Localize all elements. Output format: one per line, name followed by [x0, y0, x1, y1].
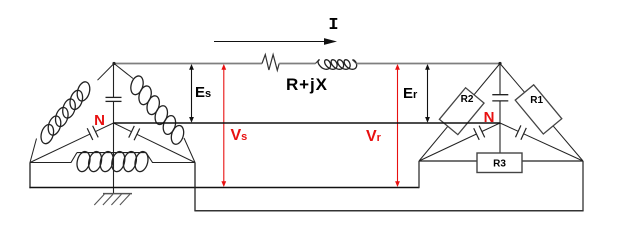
- winding (generator phase, bottom side): [30, 153, 77, 163]
- svg-text:R2: R2: [461, 94, 474, 105]
- arrow Vs (sending line voltage, red): [223, 66, 225, 186]
- svg-text:I: I: [328, 16, 338, 35]
- wire (drop at x=195): [194, 163, 196, 212]
- wire (drop at x=419 from load left vertex): [418, 161, 420, 188]
- node (receiving apex junction): [498, 62, 501, 65]
- capacitor (left bank, to lower-left vertex): [95, 123, 113, 132]
- wire (load delta base): [419, 160, 583, 162]
- svg-text:N: N: [94, 112, 105, 129]
- arrow Er (receiving phase emf): [427, 66, 429, 122]
- svg-text:R3: R3: [493, 159, 506, 170]
- svg-text:R+jX: R+jX: [286, 75, 328, 94]
- svg-text:N: N: [484, 109, 495, 126]
- capacitor (right bank, to lower-right vertex): [500, 123, 518, 131]
- resistor R3: [477, 153, 522, 173]
- current arrow I: [214, 41, 327, 43]
- capacitor (right bank, vertical phase): [499, 64, 501, 95]
- winding (generator phase, right side): [114, 64, 133, 79]
- wire (neutral link N to N at y=123): [114, 122, 501, 124]
- capacitor (right bank, to lower-left vertex): [482, 123, 500, 132]
- ground: [103, 193, 132, 195]
- wire (load delta left side): [419, 64, 500, 162]
- wire (bottom bus at y=211): [194, 210, 583, 212]
- resistor R2: [439, 88, 484, 135]
- wire (top bus, sending apex to series resistor): [114, 63, 262, 65]
- svg-text:R1: R1: [530, 95, 543, 106]
- resistor R1: [515, 85, 562, 134]
- resistor R (series line resistance): [262, 55, 279, 71]
- wire (left neutral to ground): [113, 123, 115, 194]
- arrow Es (sending phase emf): [191, 66, 193, 122]
- capacitor (left bank, to lower-right vertex): [114, 123, 132, 132]
- wire (riser at x=583 to load right vertex): [582, 161, 584, 211]
- wire (left bus drop at x=30): [29, 163, 31, 189]
- wire (load delta right side): [500, 64, 583, 162]
- winding (generator phase, left side): [98, 64, 115, 81]
- capacitor (left bank, vertical phase): [113, 64, 115, 98]
- wire (bus at y=187.5, source to load left vertex): [29, 187, 419, 189]
- wire (between resistor and inductor): [279, 63, 315, 65]
- arrow Vr (receiving line voltage, red): [397, 66, 399, 186]
- node (sending apex junction): [112, 62, 115, 65]
- inductor X (series line reactance): [315, 60, 319, 64]
- wire (right neutral to R3): [499, 123, 501, 154]
- wire (top bus, inductor to receiving apex): [356, 63, 500, 65]
